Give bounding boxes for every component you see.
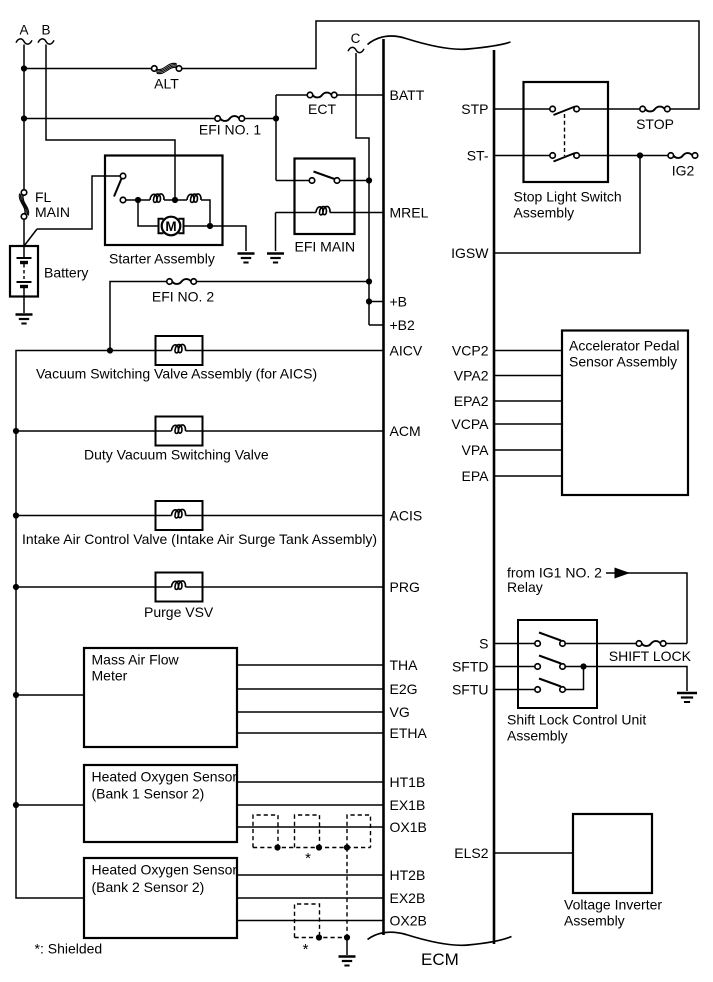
starter switch blade <box>114 179 122 197</box>
voltage inverter box <box>573 814 652 893</box>
wire EPA2 <box>494 400 562 402</box>
svg-text:ECM: ECM <box>421 950 459 969</box>
junction shield OX2B <box>316 934 322 940</box>
shift switch SFTD contact left <box>535 664 541 670</box>
junction trunk/HOS1 <box>13 802 19 808</box>
VSV duty box <box>156 417 203 446</box>
svg-text:E2G: E2G <box>390 681 418 697</box>
svg-text:AICV: AICV <box>390 343 423 359</box>
wire ETHA <box>237 732 384 734</box>
junction EFI NO.1 / ECT / relay <box>273 115 279 121</box>
mechanical link dashed <box>564 114 566 156</box>
svg-text:IGSW: IGSW <box>451 245 489 261</box>
wire SFTU <box>494 689 535 691</box>
svg-text:VG: VG <box>390 704 410 720</box>
junction EFI NO.2 / C wire <box>366 278 372 284</box>
svg-text:THA: THA <box>390 657 419 673</box>
wire EX2B <box>237 897 384 899</box>
svg-text:Relay: Relay <box>507 579 543 595</box>
svg-text:M: M <box>165 219 176 234</box>
junction shield2 <box>316 844 322 850</box>
wire ELS2 <box>494 852 573 854</box>
ground for battery <box>16 313 33 315</box>
battery plate short top <box>20 261 28 264</box>
svg-text:FL: FL <box>35 189 52 205</box>
heated oxygen sensor bank1 box <box>84 765 237 842</box>
junction shield3 <box>344 844 350 850</box>
shift switch SFTU contact left <box>535 687 541 693</box>
battery plate short bottom <box>20 285 28 288</box>
junction trunk/PRG <box>13 584 19 590</box>
svg-text:EX2B: EX2B <box>390 890 426 906</box>
wire trunk to HOS1 <box>16 804 84 806</box>
wire A vertical <box>23 45 25 191</box>
svg-text:Assembly: Assembly <box>564 913 625 929</box>
wire B vertical then to starter coil <box>46 45 175 201</box>
svg-text:*: Shielded: *: Shielded <box>35 941 103 957</box>
wire ACM line <box>16 430 384 432</box>
junction trunk/MAF <box>13 692 19 698</box>
ground for EFI MAIN coil <box>267 252 284 254</box>
svg-text:+B2: +B2 <box>390 317 416 333</box>
solenoid coil ACIS <box>172 508 186 520</box>
node B break symbol <box>38 39 54 44</box>
svg-text:SFTD: SFTD <box>452 659 489 675</box>
junction on wire A at EFI NO. 1 line <box>21 115 27 121</box>
svg-text:OX2B: OX2B <box>390 913 427 929</box>
svg-text:ELS2: ELS2 <box>454 845 488 861</box>
fusible link ALT <box>152 66 158 72</box>
svg-text:VPA: VPA <box>462 442 490 458</box>
wire battery to ground <box>23 288 25 313</box>
ground for starter motor <box>238 252 255 254</box>
relay switch contact right <box>334 178 340 184</box>
wire OX1B <box>237 826 384 828</box>
wire EPA <box>494 475 562 477</box>
svg-text:Assembly: Assembly <box>507 728 568 744</box>
svg-text:S: S <box>479 636 488 652</box>
wire ST- to IG2 <box>579 155 668 157</box>
starter motor M circle <box>162 217 181 236</box>
shift switch S contact right <box>560 641 566 647</box>
svg-text:Heated Oxygen Sensor: Heated Oxygen Sensor <box>92 769 238 785</box>
wire coil to motor branch <box>201 200 210 226</box>
shield bottom bus OX1B <box>253 847 371 849</box>
junction coil / wire B <box>172 197 178 203</box>
svg-text:PRG: PRG <box>390 579 420 595</box>
wire VPA <box>494 449 562 451</box>
fusible link FL MAIN <box>21 190 27 196</box>
junction C wire at +B <box>366 298 372 304</box>
relay EFI MAIN box <box>295 159 355 235</box>
svg-text:A: A <box>19 23 28 38</box>
mass air flow meter box <box>84 648 237 747</box>
wire ACIS line <box>16 515 384 517</box>
wire ground trunk left <box>16 351 384 899</box>
wire to ECT fuse <box>276 94 308 96</box>
fuse EFI NO. 2 <box>167 279 173 285</box>
junction motor output <box>207 223 213 229</box>
svg-text:ACIS: ACIS <box>390 508 423 524</box>
wire to relay switch <box>276 180 309 182</box>
shift switch S contact left <box>535 641 541 647</box>
junction ST-/IGSW <box>637 152 643 158</box>
stop switch 2 blade <box>554 153 576 162</box>
svg-text:*: * <box>303 941 309 958</box>
stop switch 2 contact right <box>574 153 580 159</box>
wire from IG1 relay <box>606 573 687 644</box>
wire STP to STOP fuse <box>579 108 640 110</box>
svg-text:Meter: Meter <box>92 668 128 684</box>
svg-text:Battery: Battery <box>44 265 88 281</box>
wire FL MAIN to battery <box>23 219 25 257</box>
wire OX2B <box>237 920 384 922</box>
wire EX1B <box>237 804 384 806</box>
svg-text:EX1B: EX1B <box>390 797 426 813</box>
wire +B2 pin <box>369 324 384 326</box>
svg-text:ETHA: ETHA <box>390 725 428 741</box>
svg-text:(Bank 2 Sensor 2): (Bank 2 Sensor 2) <box>92 879 205 895</box>
svg-text:EFI NO. 2: EFI NO. 2 <box>152 289 214 305</box>
svg-text:Sensor Assembly: Sensor Assembly <box>569 354 677 370</box>
wire E2G <box>237 688 384 690</box>
wire STP <box>494 108 550 110</box>
svg-text:SHIFT LOCK: SHIFT LOCK <box>609 648 692 664</box>
solenoid coil PRG <box>172 579 186 591</box>
intake air control valve box <box>156 501 203 530</box>
svg-text:VCPA: VCPA <box>451 416 489 432</box>
junction shield1 <box>274 844 280 850</box>
fuse IG2 <box>668 153 674 159</box>
junction relay switch / C wire <box>366 177 372 183</box>
wire motor branch left <box>138 200 158 226</box>
svg-text:STP: STP <box>461 101 488 117</box>
battery dashed middle <box>23 264 25 279</box>
wire VCP2 <box>494 350 562 352</box>
wire VPA2 <box>494 375 562 377</box>
wire VG <box>237 711 384 713</box>
wire C down with jog to relay contact <box>356 53 369 325</box>
svg-text:Shift Lock Control Unit: Shift Lock Control Unit <box>507 712 646 728</box>
wire trunk to MAF <box>16 694 84 696</box>
wire HT2B <box>237 874 384 876</box>
svg-text:Purge VSV: Purge VSV <box>144 604 214 620</box>
wire relay coil side to ground <box>275 213 277 252</box>
wire THA <box>237 664 384 666</box>
svg-text:IG2: IG2 <box>672 163 695 179</box>
wire HT1B <box>237 781 384 783</box>
svg-text:+B: +B <box>390 294 408 310</box>
wire SFTD to ground <box>565 667 687 692</box>
relay switch contact left <box>309 178 315 184</box>
svg-text:B: B <box>41 23 50 38</box>
wire PRG line <box>16 586 384 588</box>
wire ALT to top right corner down to STOP fuse <box>182 21 699 109</box>
stop light switch box <box>524 82 609 182</box>
svg-text:HT1B: HT1B <box>390 774 426 790</box>
stop switch 1 blade <box>554 107 576 116</box>
shift switch SFTD blade <box>539 656 561 664</box>
svg-text:ECT: ECT <box>308 101 336 117</box>
starter assembly box <box>105 156 223 246</box>
svg-text:Voltage Inverter: Voltage Inverter <box>564 897 662 913</box>
svg-text:Intake Air Control Valve (Inta: Intake Air Control Valve (Intake Air Sur… <box>22 531 377 547</box>
shift switch SFTU blade <box>539 679 561 687</box>
svg-text:*: * <box>305 850 311 867</box>
svg-text:EFI MAIN: EFI MAIN <box>295 239 356 255</box>
ECM left edge <box>382 39 385 935</box>
svg-text:EFI NO. 1: EFI NO. 1 <box>199 122 261 138</box>
wire EFI NO. 2 left leg <box>110 282 167 351</box>
wire shield drain to ground <box>346 938 348 956</box>
wire EFI NO. 2 to C wire <box>196 281 369 283</box>
accelerator pedal sensor box <box>562 331 688 496</box>
svg-text:Accelerator Pedal: Accelerator Pedal <box>569 338 680 354</box>
wire junction up to ECT and down to relay switch <box>275 95 277 181</box>
svg-text:MAIN: MAIN <box>35 204 70 220</box>
shift switch SFTU contact right <box>560 687 566 693</box>
wire IGSW <box>494 156 640 254</box>
wire relay coil to MREL pin <box>330 212 384 214</box>
svg-text:VPA2: VPA2 <box>454 368 489 384</box>
battery box <box>10 246 38 297</box>
starter switch contact top <box>120 173 126 179</box>
wire between coils <box>164 199 187 201</box>
shield around OX1B section 2 <box>295 815 320 848</box>
wire ST- <box>494 155 550 157</box>
wire ECT fuse to BATT pin <box>337 94 384 96</box>
shift lock control unit box <box>518 620 597 708</box>
battery plate long top <box>17 257 32 259</box>
svg-text:ST-: ST- <box>467 148 489 164</box>
relay coil <box>316 206 330 214</box>
ECM top torn edge <box>368 36 511 49</box>
junction trunk/ACM <box>13 428 19 434</box>
stop switch 1 contact left <box>550 106 556 112</box>
wire motor to ground <box>184 226 247 251</box>
starter switch contact bottom <box>120 197 126 203</box>
wire diagonal to battery <box>24 229 37 246</box>
junction SFTD/SFTU <box>580 663 586 669</box>
starter pull-in coil <box>187 194 201 202</box>
svg-text:EPA2: EPA2 <box>454 393 489 409</box>
fuse SHIFT LOCK <box>636 641 642 647</box>
arrowhead <box>615 568 631 579</box>
svg-text:Mass Air Flow: Mass Air Flow <box>92 652 180 668</box>
shift switch S blade <box>539 633 561 641</box>
svg-text:HT2B: HT2B <box>390 867 426 883</box>
svg-text:Duty Vacuum Switching Valve: Duty Vacuum Switching Valve <box>84 447 269 463</box>
junction trunk/ACIS <box>13 512 19 518</box>
heated oxygen sensor bank2 box <box>84 858 237 938</box>
shield bottom bus OX2B <box>295 937 348 939</box>
shift switch SFTD contact right <box>560 664 566 670</box>
wire ALT feed <box>24 68 152 70</box>
wire battery feed to starter switch <box>37 176 121 229</box>
starter hold-in coil <box>150 194 164 202</box>
wire S <box>494 643 535 645</box>
wire relay switch to C wire <box>340 180 369 182</box>
svg-text:STOP: STOP <box>636 116 674 132</box>
shield around OX1B section 1 <box>253 815 278 848</box>
shield around OX1B section 3 <box>347 815 371 848</box>
svg-text:Vacuum Switching Valve Assembl: Vacuum Switching Valve Assembly (for AIC… <box>36 366 317 382</box>
wire S to SHIFT LOCK fuse <box>565 643 636 645</box>
solenoid coil ACM <box>172 423 186 435</box>
shield drain dashed drop <box>346 848 348 937</box>
wire fuse to junction <box>244 118 276 120</box>
ECM right edge <box>493 50 496 944</box>
fuse EFI NO. 1 <box>215 116 221 122</box>
svg-text:EPA: EPA <box>462 468 490 484</box>
wire SFTU up to SFTD <box>565 667 583 690</box>
svg-text:SFTU: SFTU <box>452 682 489 698</box>
svg-text:Starter Assembly: Starter Assembly <box>109 251 215 267</box>
VSV AICS box <box>156 336 203 365</box>
svg-text:C: C <box>351 31 361 46</box>
junction at starter motor branch <box>135 197 141 203</box>
ground for shift lock <box>677 692 697 694</box>
svg-text:MREL: MREL <box>390 205 429 221</box>
svg-text:ACM: ACM <box>390 423 421 439</box>
wire switch to coil 1 <box>126 199 150 201</box>
wire fuse to IG1 feed <box>666 643 687 645</box>
svg-text:Stop Light Switch: Stop Light Switch <box>514 189 622 205</box>
purge VSV box <box>156 573 203 602</box>
svg-text:VCP2: VCP2 <box>452 343 489 359</box>
battery plate long bottom <box>17 281 32 283</box>
fuse ECT <box>307 92 313 98</box>
ECM bottom torn edge <box>368 932 512 945</box>
wire MREL through relay coil <box>276 212 317 214</box>
svg-text:(Bank 1 Sensor 2): (Bank 1 Sensor 2) <box>92 786 205 802</box>
wire SFTD <box>494 666 535 668</box>
solenoid coil AICV <box>172 343 186 355</box>
fuse STOP <box>640 106 646 112</box>
svg-text:Assembly: Assembly <box>514 205 575 221</box>
ground for shield <box>339 955 356 957</box>
node A break symbol <box>16 39 32 44</box>
starter motor left bracket <box>159 219 164 234</box>
wire EFI NO. 1 feed <box>24 118 215 120</box>
shield around OX2B <box>295 904 320 938</box>
wire +B pin <box>369 301 384 303</box>
junction shield drain <box>344 934 350 940</box>
starter motor right bracket <box>179 219 184 234</box>
stop switch 2 contact left <box>550 153 556 159</box>
stop switch 1 contact right <box>574 106 580 112</box>
svg-text:ALT: ALT <box>154 76 179 92</box>
svg-text:BATT: BATT <box>390 87 425 103</box>
junction EFI NO.2 / AICV line <box>107 347 113 353</box>
svg-text:Heated Oxygen Sensor: Heated Oxygen Sensor <box>92 862 238 878</box>
node C break symbol <box>348 47 364 52</box>
relay switch blade <box>314 172 335 180</box>
svg-text:OX1B: OX1B <box>390 819 427 835</box>
junction on wire A at ALT line <box>21 65 27 71</box>
wire VCPA <box>494 423 562 425</box>
